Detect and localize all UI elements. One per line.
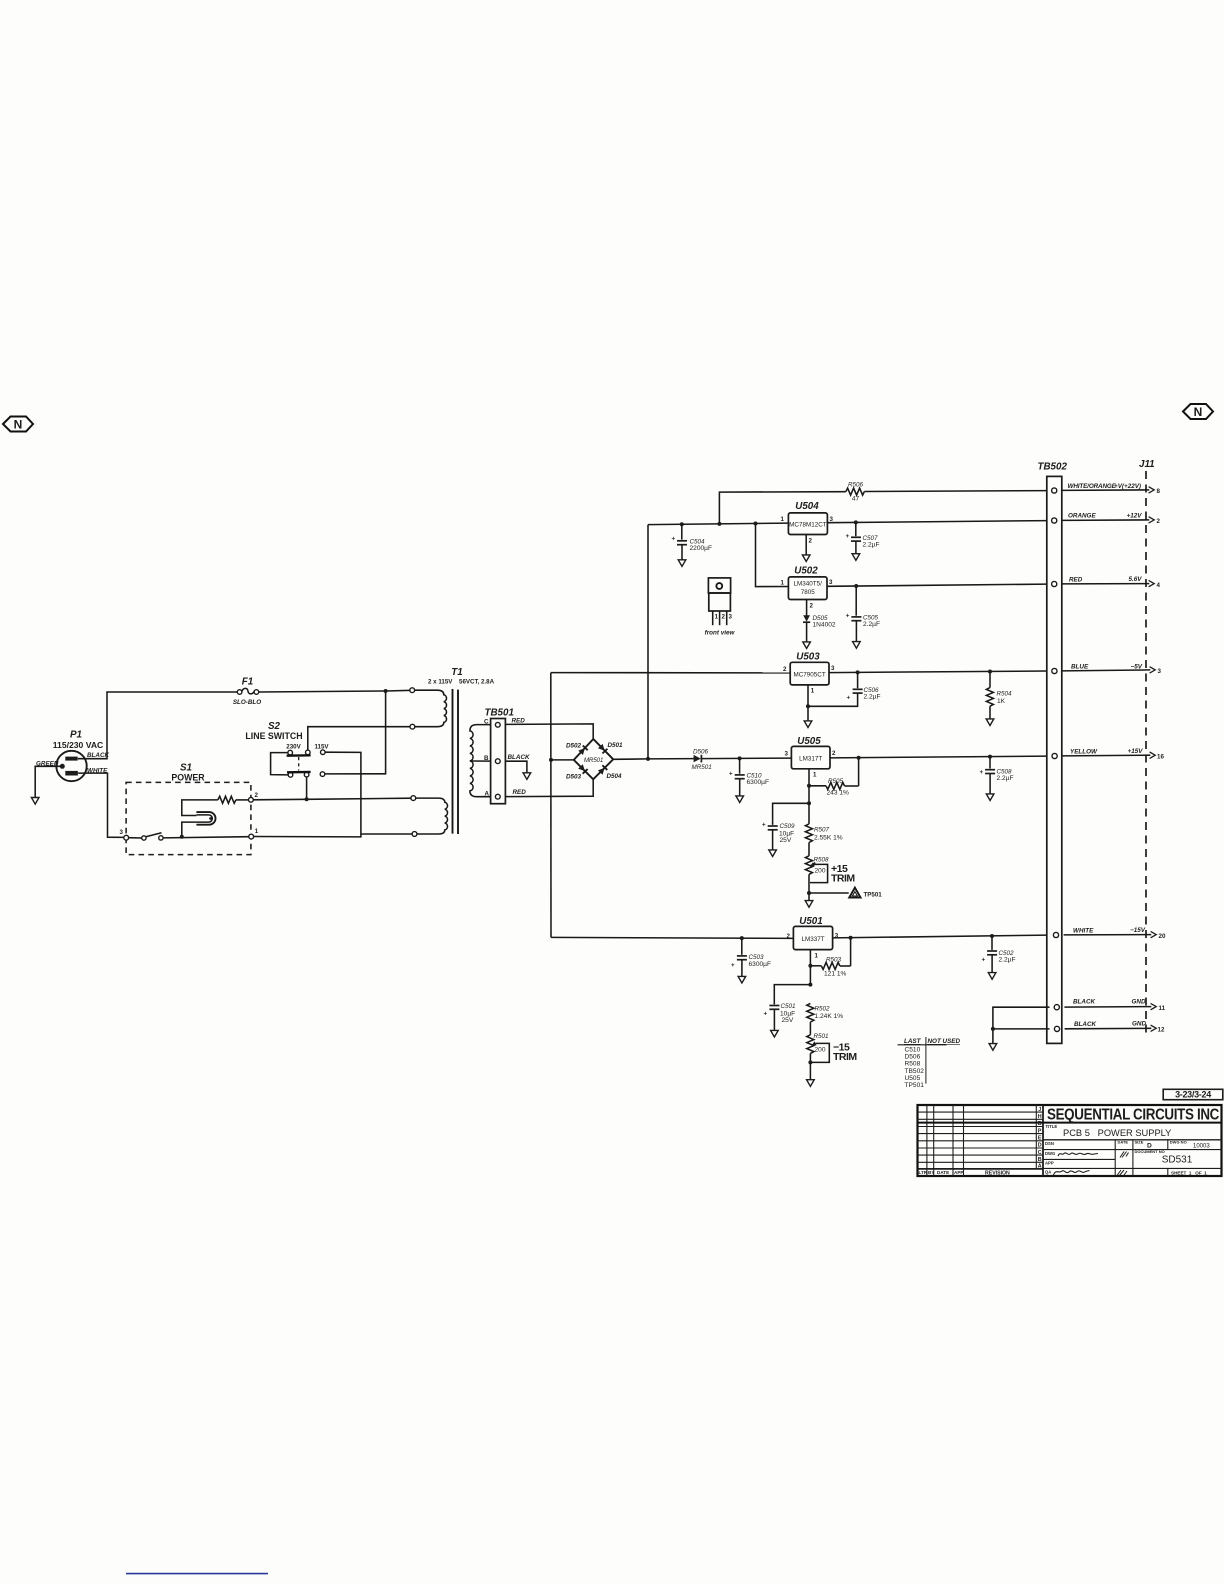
svg-text:2: 2: [1157, 518, 1161, 525]
capacitor C503 6300uF: [731, 938, 771, 976]
svg-text:+15V: +15V: [1128, 748, 1144, 755]
svg-text:1: 1: [815, 953, 819, 960]
switch S2 LINE SWITCH: [245, 721, 329, 777]
svg-text:2: 2: [810, 603, 814, 610]
wire bridge minus to -V rail: [551, 759, 574, 761]
svg-text:+: +: [846, 613, 850, 620]
svg-text:1K: 1K: [997, 698, 1006, 705]
svg-text:1: 1: [715, 614, 719, 621]
resistor R506 47: [846, 482, 865, 503]
capacitor C504 2200uF: [672, 524, 713, 560]
capacitor C506 2.2uF: [808, 672, 881, 706]
svg-text:U505: U505: [905, 1075, 921, 1082]
svg-text:D506: D506: [693, 749, 709, 756]
ground (U505 adj divider): [808, 893, 810, 901]
svg-text:D501: D501: [608, 742, 624, 749]
terminal T1-2: [410, 724, 415, 729]
node lamp/bottom-wire junction: [180, 835, 184, 839]
svg-text:2.2µF: 2.2µF: [863, 621, 880, 628]
regulator U505 LM317T: [785, 736, 836, 779]
svg-text:−15V: −15V: [1130, 927, 1146, 934]
svg-text:1: 1: [811, 688, 815, 695]
svg-text:R506: R506: [848, 482, 864, 489]
svg-text:TB502: TB502: [1038, 462, 1068, 473]
svg-text:LM340T5/: LM340T5/: [794, 581, 823, 588]
node C510 tap: [738, 756, 742, 760]
svg-text:R508: R508: [814, 857, 830, 864]
svg-text:5.6V: 5.6V: [1129, 576, 1143, 583]
ground (C501): [771, 1030, 779, 1037]
terminal block TB501: [484, 708, 514, 804]
diode D501 (upper-right arm): [598, 744, 608, 754]
wire +V rail vertical: [647, 525, 649, 759]
svg-text:TB502: TB502: [905, 1068, 925, 1075]
svg-text:2: 2: [787, 933, 791, 940]
diode D505 1N4002: [803, 615, 836, 629]
svg-text:DSN: DSN: [1045, 1141, 1054, 1146]
svg-text:1: 1: [255, 828, 259, 835]
svg-text:243 1%: 243 1%: [827, 790, 850, 797]
svg-text:2 x 115V: 2 x 115V: [428, 679, 453, 686]
node U502 feed tap: [754, 522, 758, 526]
wire S2 ganged loop left: [271, 753, 289, 775]
svg-text:R503: R503: [826, 957, 842, 964]
wire U504 output to TB502: [827, 521, 1047, 523]
svg-text:MC78M12CT: MC78M12CT: [789, 521, 827, 528]
svg-text:T1: T1: [451, 667, 462, 678]
svg-text:3: 3: [729, 614, 733, 621]
svg-text:R508: R508: [905, 1061, 921, 1068]
regulator U503 MC7905CT: [783, 652, 835, 695]
svg-text:BLACK: BLACK: [508, 754, 530, 761]
svg-text:25V: 25V: [782, 1017, 794, 1024]
resistor R507 2.55K 1%: [805, 803, 842, 856]
signature (QA row): [1054, 1171, 1090, 1176]
svg-text:TP501: TP501: [905, 1082, 925, 1089]
trimmer R501 200 (-15 TRIM): [807, 1033, 858, 1080]
node GND junction: [991, 1027, 995, 1031]
node C502 tap: [990, 934, 994, 938]
terminal TB502 -15V / wire WHITE to J11 pin 20: [1053, 927, 1166, 940]
svg-text:8: 8: [1157, 488, 1161, 495]
svg-text:2: 2: [832, 750, 836, 757]
connector J11 (dashed): [1139, 459, 1155, 1036]
svg-text:TRIM: TRIM: [833, 1051, 857, 1063]
ground (U501 adj divider): [807, 1080, 815, 1087]
svg-text:RED: RED: [512, 717, 526, 724]
terminal TB502 +22V / wire WHITE/ORANGE to J11 pin 8: [1052, 483, 1161, 495]
revision table grid: [918, 1105, 1044, 1176]
wire RED (A) to bridge bottom: [505, 779, 593, 797]
svg-text:RED: RED: [513, 789, 527, 796]
svg-text:12: 12: [1158, 1027, 1165, 1034]
svg-text:+: +: [846, 533, 850, 540]
svg-text:11: 11: [1159, 1005, 1166, 1012]
svg-text:25V: 25V: [780, 837, 792, 844]
wire S2 115V top contact to T1 bottom tap: [325, 752, 361, 837]
svg-text:YELLOW: YELLOW: [1070, 748, 1098, 755]
revision letter column: [1038, 1107, 1042, 1170]
svg-text:POWER: POWER: [171, 773, 205, 783]
svg-text:LM317T: LM317T: [799, 756, 822, 763]
svg-text:3: 3: [830, 516, 834, 523]
svg-text:P1: P1: [70, 730, 82, 741]
resistor R503 121 1%: [810, 938, 850, 978]
node S1 pin 2: [249, 797, 254, 802]
page reference box 3-23/3-24: [1163, 1089, 1223, 1099]
node -V rail / bridge: [549, 758, 553, 762]
svg-text:J11: J11: [1139, 459, 1155, 470]
ground (C504): [678, 560, 686, 567]
svg-text:3: 3: [120, 829, 124, 836]
svg-text:U504: U504: [795, 501, 819, 512]
title block frame: [918, 1105, 1222, 1176]
svg-text:+: +: [729, 771, 733, 778]
wire green to ground: [35, 766, 60, 797]
svg-text:R501: R501: [814, 1033, 829, 1040]
svg-text:QA: QA: [1045, 1170, 1051, 1175]
svg-text:−5V: −5V: [1131, 663, 1143, 670]
wire -V rail to U503 input: [551, 672, 790, 674]
regulator U502 LM340T5/7805: [781, 566, 833, 610]
wire GND bus to ground: [993, 1007, 1050, 1043]
svg-text:R507: R507: [814, 827, 830, 834]
wire U503 output to TB502: [829, 671, 1047, 673]
svg-text:WHITE/ORANGE: WHITE/ORANGE: [1068, 483, 1117, 490]
test point TP501: [809, 888, 882, 899]
ground (green pin): [31, 798, 39, 805]
switch S1 POWER (dashed enclosure): [126, 763, 251, 855]
wire -V rail to U501 input: [551, 937, 793, 938]
signature date (QA row): [1117, 1170, 1127, 1176]
svg-text:GND: GND: [1132, 999, 1146, 1006]
svg-text:+: +: [982, 957, 986, 964]
svg-text:R505: R505: [828, 778, 844, 785]
svg-text:R504: R504: [997, 691, 1013, 698]
svg-text:N: N: [14, 418, 23, 432]
wire S1 pin2 to T1 terminal 3: [253, 798, 411, 800]
wire +22V riser and top line: [719, 492, 845, 524]
svg-text:NOT USED: NOT USED: [928, 1038, 961, 1045]
node C504 tap: [680, 522, 684, 526]
terminal TB502 +12V / wire ORANGE to J11 pin 2: [1052, 512, 1161, 525]
ground (C507): [852, 554, 860, 561]
nav marker N (right): [1183, 404, 1213, 419]
capacitor C507 2.2uF: [846, 522, 880, 553]
svg-text:H: H: [1038, 1114, 1042, 1120]
wire secondary center tap: [470, 760, 491, 762]
svg-text:200: 200: [815, 1046, 826, 1053]
svg-text:LINE SWITCH: LINE SWITCH: [245, 731, 302, 741]
node C505 tap: [854, 584, 858, 588]
node R504 tap: [988, 670, 992, 674]
wire -V rail vertical: [550, 673, 552, 938]
ground (R504): [986, 719, 994, 726]
node TP tap: [807, 891, 811, 895]
svg-text:P: P: [1038, 1128, 1042, 1134]
node R505 top tap: [857, 756, 861, 760]
node C503 tap: [740, 936, 744, 940]
svg-text:LTR: LTR: [919, 1170, 928, 1175]
terminal T1-4: [412, 832, 417, 837]
svg-text:3-23/3-24: 3-23/3-24: [1175, 1090, 1211, 1100]
svg-text:A: A: [1038, 1164, 1042, 1170]
svg-text:2: 2: [722, 614, 726, 621]
svg-text:D503: D503: [566, 773, 582, 780]
svg-text:SLO-BLO: SLO-BLO: [233, 699, 261, 706]
switch toggle contacts (S1): [129, 833, 163, 840]
svg-text:2.2µF: 2.2µF: [864, 694, 881, 701]
capacitor C510 6300uF: [729, 758, 769, 796]
node C508 tap: [988, 755, 992, 759]
connector P1 115/230 VAC power plug: [36, 730, 109, 782]
svg-text:U505: U505: [797, 736, 821, 747]
wire U505 output to TB502: [830, 756, 1047, 758]
terminal T1-1: [410, 688, 415, 693]
ground (center tap): [523, 773, 531, 780]
svg-text:B: B: [1038, 1157, 1042, 1163]
svg-text:WHITE: WHITE: [1073, 927, 1094, 934]
wire to C501: [774, 985, 810, 1005]
wire white (neutral) down to S1: [78, 773, 124, 837]
wire S2 230V contact up to T1 terminal 2: [308, 727, 410, 750]
svg-text:+: +: [764, 1011, 768, 1018]
regulator U501 LM337T: [787, 916, 839, 960]
svg-text:1: 1: [781, 516, 785, 523]
revision table footer labels: [919, 1170, 1011, 1176]
ground (C505): [853, 642, 861, 649]
wire U502 pin2 down: [806, 600, 808, 616]
terminal strip TB502: [1038, 462, 1068, 1044]
svg-text:C509: C509: [780, 823, 796, 830]
svg-text:121 1%: 121 1%: [824, 971, 847, 978]
table LAST / NOT USED: [898, 1037, 961, 1089]
ground (TB502 GND): [989, 1044, 997, 1051]
svg-text:+: +: [731, 962, 735, 969]
ground (C510): [736, 796, 744, 803]
resistor R505 243 1%: [809, 758, 859, 797]
svg-text:2: 2: [783, 666, 787, 673]
wire to C509: [773, 803, 809, 821]
svg-text:N: N: [1194, 405, 1203, 419]
terminal TB502 GND / wire BLACK to J11 pin 11: [1054, 999, 1165, 1013]
capacitor C505 2.2uF: [846, 586, 880, 642]
svg-text:C510: C510: [905, 1047, 921, 1054]
wire BLACK (B) to ground: [505, 761, 527, 773]
svg-text:F1: F1: [242, 677, 253, 688]
svg-text:LAST: LAST: [904, 1038, 922, 1045]
svg-text:SIZE: SIZE: [1135, 1140, 1144, 1145]
svg-text:DWG: DWG: [1045, 1151, 1055, 1156]
svg-text:SD531: SD531: [1162, 1155, 1193, 1166]
node S1 pin 3: [124, 835, 129, 840]
svg-text:6300µF: 6300µF: [749, 961, 772, 968]
node R503 top tap: [849, 936, 853, 940]
svg-text:BY: BY: [928, 1170, 934, 1175]
signature date (DWG row): [1120, 1152, 1129, 1158]
capacitor C508 2.2uF: [980, 757, 1014, 794]
node 115V tap joins bottom wire: [360, 836, 362, 838]
logo SEQUENTIAL CIRCUITS INC: [918, 1107, 1222, 1124]
svg-text:TRIM: TRIM: [831, 873, 855, 885]
svg-text:front view: front view: [705, 630, 736, 637]
wire U505 pin1 down: [808, 769, 810, 804]
svg-text:1N4002: 1N4002: [813, 622, 836, 629]
signature (DWG row): [1058, 1153, 1098, 1156]
wire +V feed line to U504 input: [648, 523, 788, 525]
svg-text:230V: 230V: [286, 744, 301, 751]
ground (D505): [803, 642, 811, 649]
svg-text:+V(+22V): +V(+22V): [1114, 483, 1141, 490]
transformer T1: [428, 667, 495, 686]
regulator U504 MC78M12CT: [781, 501, 834, 545]
svg-text:APP: APP: [1045, 1160, 1054, 1165]
svg-text:4: 4: [1157, 582, 1161, 589]
svg-text:2.2µF: 2.2µF: [999, 957, 1016, 964]
svg-text:REVISION: REVISION: [985, 1170, 1010, 1176]
svg-text:2.55K 1%: 2.55K 1%: [814, 835, 843, 842]
svg-text:1: 1: [781, 580, 785, 587]
svg-text:MR501: MR501: [584, 757, 603, 764]
svg-text:7805: 7805: [801, 589, 816, 596]
wire S2 common down to S1 pin2 line: [306, 777, 308, 799]
wire junction down to S2 115V lower contact: [325, 691, 386, 774]
svg-text:LM337T: LM337T: [802, 936, 825, 943]
wire U504 pin2 to ground: [805, 535, 807, 555]
winding primary upper: [415, 690, 447, 727]
svg-text:+: +: [762, 822, 766, 829]
terminal TB502 -5V / wire BLUE to J11 pin 3: [1052, 663, 1162, 675]
resistor (lamp ballast inside S1): [182, 796, 249, 815]
wire RED (C) to bridge top: [505, 724, 593, 740]
svg-text:DATE: DATE: [1118, 1140, 1129, 1145]
capacitor C502 2.2uF: [982, 936, 1016, 973]
resistor R502 1.24K 1%: [807, 1003, 843, 1034]
wire black (hot) to fuse: [78, 692, 237, 759]
svg-text:E: E: [1038, 1136, 1042, 1142]
decorative blue scan line: [126, 1573, 268, 1575]
wire tap to T1 terminal 4: [361, 833, 412, 835]
svg-text:56VCT, 2.8A: 56VCT, 2.8A: [459, 679, 495, 686]
svg-text:+: +: [847, 695, 851, 702]
svg-text:A: A: [485, 791, 490, 798]
svg-text:TB501: TB501: [485, 708, 514, 719]
svg-text:APP: APP: [954, 1170, 963, 1175]
capacitor C501 10uF 25V: [764, 1003, 796, 1030]
svg-text:1: 1: [813, 772, 817, 779]
svg-text:D506: D506: [905, 1054, 921, 1061]
wire U501 output to TB502: [833, 935, 1048, 938]
svg-text:47: 47: [852, 496, 860, 503]
svg-text:115/230 VAC: 115/230 VAC: [53, 740, 103, 750]
title field PCB 5 POWER SUPPLY: [1043, 1124, 1222, 1140]
svg-text:U502: U502: [794, 566, 818, 577]
svg-text:2.2µF: 2.2µF: [997, 775, 1014, 782]
wire R506 to TB502: [864, 490, 1047, 493]
node C506 tap: [856, 670, 860, 674]
svg-text:ORANGE: ORANGE: [1068, 513, 1096, 520]
core (laminations): [452, 689, 454, 834]
svg-text:PCB 5 POWER SUPPLY: PCB 5 POWER SUPPLY: [1063, 1128, 1171, 1138]
wire U502 input riser: [756, 524, 789, 587]
drafting fields grid: [1043, 1140, 1222, 1176]
wire bridge plus to +V rail: [613, 758, 648, 760]
capacitor C509 10uF 25V: [762, 821, 795, 850]
terminal TB502 +15V / wire YELLOW to J11 pin 16: [1052, 748, 1164, 761]
svg-text:10003: 10003: [1193, 1143, 1210, 1149]
wire U503 pin1 to ground: [807, 685, 809, 721]
diode D503 (lower-left arm): [578, 764, 588, 774]
svg-text:SEQUENTIAL CIRCUITS INC: SEQUENTIAL CIRCUITS INC: [1047, 1107, 1219, 1124]
node junction fuse line / 115V tap: [384, 689, 388, 693]
svg-text:3: 3: [829, 579, 833, 586]
diode D502 (upper-left arm): [578, 746, 588, 756]
wire S1 bottom run to pin1 and out to T1: [163, 837, 249, 838]
wire fuse to T1 terminal 1: [259, 690, 412, 692]
svg-text:1.24K 1%: 1.24K 1%: [815, 1013, 844, 1020]
svg-text:+: +: [980, 769, 984, 776]
wire U502 output to TB502: [827, 584, 1047, 586]
svg-text:3: 3: [1158, 668, 1162, 675]
fuse F1 SLO-BLO: [233, 677, 261, 707]
svg-text:C: C: [484, 719, 489, 726]
terminal T1-3: [411, 796, 416, 801]
package drawing TO-220 front view: [705, 578, 736, 637]
wire U501 pin1 down: [809, 950, 811, 985]
svg-text:6300µF: 6300µF: [747, 779, 770, 786]
svg-text:R502: R502: [815, 1006, 831, 1013]
winding primary lower: [416, 798, 448, 834]
node C507 tap: [854, 520, 858, 524]
diode D506 MR501: [648, 749, 791, 771]
trimmer R508 200 (+15 TRIM): [805, 856, 855, 893]
svg-text:C: C: [1038, 1150, 1042, 1156]
svg-text:D504: D504: [607, 773, 623, 780]
svg-text:2.2µF: 2.2µF: [863, 542, 880, 549]
svg-text:3: 3: [785, 751, 789, 758]
svg-text:20: 20: [1159, 933, 1166, 940]
resistor R504 1K: [986, 672, 1012, 719]
svg-text:TITLE: TITLE: [1046, 1124, 1058, 1129]
svg-text:SHEET 1 OF 1: SHEET 1 OF 1: [1171, 1170, 1207, 1175]
winding secondary 56VCT: [470, 725, 491, 797]
node S1 pin 1: [249, 834, 254, 839]
svg-text:D502: D502: [566, 743, 582, 750]
svg-text:16: 16: [1157, 754, 1164, 761]
svg-text:2200µF: 2200µF: [690, 545, 713, 552]
svg-text:MR501: MR501: [692, 764, 712, 771]
lamp neon (inside S1): [182, 812, 216, 837]
ground (C503): [738, 976, 746, 983]
svg-text:D: D: [1038, 1143, 1042, 1149]
svg-text:U503: U503: [796, 652, 820, 663]
svg-text:TP501: TP501: [864, 892, 883, 899]
ground (C508): [986, 794, 994, 801]
svg-text:+12V: +12V: [1127, 512, 1143, 519]
svg-text:MC7905CT: MC7905CT: [793, 671, 825, 678]
svg-text:BLUE: BLUE: [1071, 664, 1089, 671]
svg-text:200: 200: [815, 867, 826, 874]
ground (C502): [988, 973, 996, 980]
node +V rail / bridge: [646, 757, 650, 761]
nav marker N (left): [3, 417, 33, 432]
svg-text:3: 3: [831, 665, 835, 672]
svg-text:DOCUMENT NO: DOCUMENT NO: [1135, 1149, 1165, 1154]
svg-text:B: B: [484, 755, 489, 762]
svg-text:2: 2: [255, 792, 259, 799]
svg-text:GND: GND: [1132, 1021, 1146, 1028]
svg-text:2: 2: [809, 538, 813, 545]
